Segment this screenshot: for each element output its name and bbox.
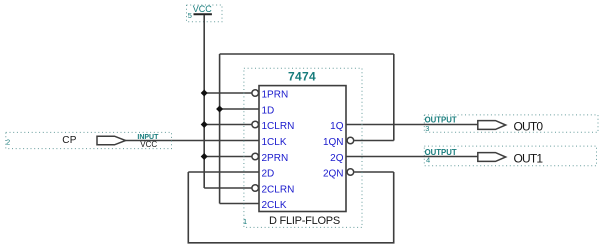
IC U1 title D FLIP-FLOPS xyxy=(269,215,340,227)
pin bubble 2CLRN xyxy=(252,185,259,192)
output port OUT1 symbol xyxy=(478,153,506,162)
input port CP symbol xyxy=(97,136,126,145)
wire 2CLRN to VCC rail xyxy=(204,187,251,189)
wire CP to 1CLK xyxy=(126,140,260,142)
pin label 2PRN xyxy=(262,153,289,164)
junction on VCC rail at 1CLRN xyxy=(201,121,208,128)
wire 2CLK stub xyxy=(220,203,259,205)
output port OUT1 name xyxy=(514,151,544,165)
pin label 2CLRN xyxy=(262,184,295,195)
svg-text:1D: 1D xyxy=(262,105,275,116)
IC U1 label 1 xyxy=(243,217,247,226)
svg-text:1Q: 1Q xyxy=(330,121,344,132)
output port OUT0 name xyxy=(514,119,544,133)
pin label 2CLK xyxy=(262,200,287,211)
svg-text:2PRN: 2PRN xyxy=(262,153,289,164)
svg-text:OUT0: OUT0 xyxy=(514,119,544,133)
wire 1Q to OUT0 xyxy=(346,124,478,126)
pin bubble 1PRN xyxy=(252,90,259,97)
op IC U1 selection box xyxy=(244,68,362,227)
wire 1QN stub xyxy=(354,140,394,142)
output port OUT0 selection box xyxy=(424,115,598,132)
svg-text:OUT1: OUT1 xyxy=(514,151,544,165)
wire 2QN stub xyxy=(354,171,394,173)
wire 2D stub xyxy=(188,171,259,173)
svg-text:1CLRN: 1CLRN xyxy=(262,121,295,132)
pin bubble 2QN xyxy=(347,169,354,176)
junction on VCC rail at 2PRN xyxy=(201,153,208,160)
net label VCC on CP wire xyxy=(140,140,157,149)
svg-text:1CLK: 1CLK xyxy=(262,137,287,148)
IC U1 7474 body xyxy=(259,86,346,212)
svg-text:OUTPUT: OUTPUT xyxy=(425,116,457,125)
svg-text:D FLIP-FLOPS: D FLIP-FLOPS xyxy=(269,215,340,227)
wire 1CLRN stub xyxy=(204,124,251,126)
junction on feedback line at 1D xyxy=(216,106,223,113)
svg-text:OUTPUT: OUTPUT xyxy=(425,148,457,157)
pin label 1PRN xyxy=(262,89,289,100)
pin bubble 1CLRN xyxy=(252,121,259,128)
svg-text:5: 5 xyxy=(188,11,192,20)
output port OUT0 symbol xyxy=(478,121,506,130)
pin bubble 1QN xyxy=(347,137,354,144)
wire 1D stub xyxy=(220,108,259,110)
svg-text:CP: CP xyxy=(62,135,76,146)
net label OUTPUT for OUT1 xyxy=(425,148,457,157)
pin label 2QN xyxy=(323,168,344,179)
net label INPUT xyxy=(137,134,159,141)
wire 1QN feedback right vertical xyxy=(393,54,395,141)
pin label 1Q xyxy=(330,121,344,132)
net label OUTPUT for OUT0 xyxy=(425,116,457,125)
svg-text:VCC: VCC xyxy=(193,4,213,14)
svg-text:2D: 2D xyxy=(262,168,275,179)
pin label 1QN xyxy=(323,137,344,148)
svg-text:3: 3 xyxy=(425,124,429,133)
svg-text:7474: 7474 xyxy=(288,70,316,84)
svg-text:2CLRN: 2CLRN xyxy=(262,184,295,195)
output port OUT0 label 3 xyxy=(425,124,429,133)
output port OUT1 selection box xyxy=(424,146,596,166)
wire 1QN feedback vertical to 1D and 2CLK xyxy=(219,54,221,204)
svg-text:VCC: VCC xyxy=(140,140,157,149)
svg-text:2CLK: 2CLK xyxy=(262,200,287,211)
pin label 2Q xyxy=(330,153,344,164)
wire 2Q to OUT1 xyxy=(346,156,478,158)
IC U1 part number 7474 xyxy=(288,70,316,84)
svg-text:2Q: 2Q xyxy=(330,153,344,164)
input port CP selection box xyxy=(6,132,172,148)
svg-text:4: 4 xyxy=(426,156,430,165)
svg-text:1PRN: 1PRN xyxy=(262,89,289,100)
wire 1QN feedback top horizontal xyxy=(220,53,394,55)
pin bubble 2PRN xyxy=(252,153,259,160)
output port OUT1 label 4 xyxy=(426,156,430,165)
svg-text:1: 1 xyxy=(243,217,247,226)
input port CP label 2 xyxy=(6,137,10,146)
wire 2QN feedback loop to 2D xyxy=(188,172,393,243)
power symbol VCC selection box xyxy=(187,5,223,22)
svg-text:2: 2 xyxy=(6,137,10,146)
junction on VCC rail at 1PRN xyxy=(201,90,208,97)
wire 2PRN stub xyxy=(204,156,251,158)
power symbol VCC xyxy=(193,4,213,14)
svg-text:1QN: 1QN xyxy=(323,137,344,148)
wire 1PRN stub xyxy=(204,92,251,94)
power symbol VCC label 5 xyxy=(188,11,192,20)
pin label 1CLK xyxy=(262,137,287,148)
pin label 1CLRN xyxy=(262,121,295,132)
wire VCC vertical rail xyxy=(203,15,205,188)
input port CP name xyxy=(62,135,76,146)
pin label 2D xyxy=(262,168,275,179)
svg-text:2QN: 2QN xyxy=(323,168,344,179)
pin label 1D xyxy=(262,105,275,116)
